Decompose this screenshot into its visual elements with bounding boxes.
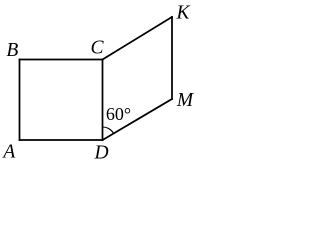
side KM bbox=[171, 17, 173, 99]
angle arc at D bbox=[103, 127, 114, 134]
svg-text:D: D bbox=[93, 142, 108, 163]
svg-text:60°: 60° bbox=[106, 104, 131, 124]
side AB bbox=[19, 60, 21, 141]
svg-text:M: M bbox=[176, 90, 195, 111]
side CK bbox=[103, 17, 173, 60]
svg-text:A: A bbox=[1, 142, 15, 163]
side CD bbox=[102, 60, 104, 141]
svg-text:B: B bbox=[6, 40, 18, 61]
svg-text:K: K bbox=[175, 3, 190, 24]
svg-text:C: C bbox=[90, 38, 104, 59]
side BC bbox=[20, 59, 103, 61]
side DA bbox=[20, 139, 103, 141]
side MD bbox=[103, 99, 173, 140]
